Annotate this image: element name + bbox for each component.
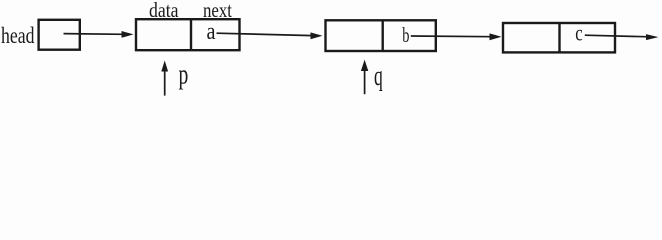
wire head to node1 (64, 33, 125, 36)
wire node2 to node3 (411, 35, 492, 38)
pointer q arrow (364, 68, 366, 94)
wire node3 to nil (585, 35, 649, 37)
arrowhead into node3 (490, 33, 502, 40)
wire node1 to node2 (217, 33, 314, 35)
head pointer box (39, 20, 80, 50)
node3 box (503, 23, 615, 52)
arrowhead into node2 (311, 32, 323, 39)
svg-text:b: b (402, 23, 409, 47)
node3 divider (558, 23, 560, 52)
svg-text:q: q (374, 61, 383, 92)
svg-text:c: c (575, 21, 582, 46)
node1 divider (190, 19, 192, 50)
node1 box (136, 19, 240, 50)
svg-text:p: p (179, 59, 189, 90)
pointer p arrow (164, 69, 166, 96)
arrowhead into node1 (122, 31, 134, 38)
arrowhead nil (646, 34, 659, 40)
svg-text:head: head (1, 23, 35, 48)
node2 box (326, 20, 436, 51)
svg-text:a: a (207, 19, 216, 45)
node2 divider (382, 20, 384, 51)
